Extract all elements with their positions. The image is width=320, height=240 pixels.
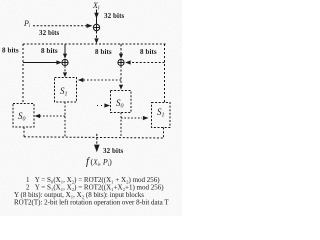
svg-text:8 bits: 8 bits <box>2 46 19 54</box>
wire branch4 tap into xor3 <box>130 62 165 64</box>
svg-text:32 bits: 32 bits <box>39 29 60 37</box>
svg-text:32 bits: 32 bits <box>103 147 124 155</box>
svg-text:8 bits: 8 bits <box>140 48 157 56</box>
wire tap into S1 box A right input <box>84 79 122 81</box>
wire dashed arrow from Pi to xor1 <box>33 25 87 27</box>
wire branch3 vertical to xor3 <box>120 44 122 54</box>
wire branch4 right vertical <box>164 44 166 103</box>
wire branch1 tap into xor2 <box>23 62 58 64</box>
wire xor3 down to S0 box C <box>120 66 122 86</box>
S-box S0 (box B) <box>13 104 34 128</box>
wire split line <box>23 43 166 45</box>
wire S0 boxC output down <box>120 113 122 138</box>
wire tap into S1 box D left input <box>121 117 142 119</box>
svg-text:32 bits: 32 bits <box>104 12 125 20</box>
wire merge line bottom <box>24 137 164 138</box>
wire boxA output into boxC left input <box>97 105 103 107</box>
wire tap into S0 box B right input <box>40 115 65 117</box>
svg-text:8 bits: 8 bits <box>41 47 58 55</box>
wire output arrow down <box>96 134 98 145</box>
xor U1 top <box>93 24 99 30</box>
svg-text:f (Xi, Pi): f (Xi, Pi) <box>86 157 112 168</box>
wire S1 boxA output down <box>64 102 66 137</box>
S-box S1 (box D) <box>152 103 171 128</box>
wire S1 boxD output down <box>163 128 165 139</box>
wire xor1 output down <box>96 31 98 39</box>
svg-text:ROT2(T): 2-bit left rotation o: ROT2(T): 2-bit left rotation operation o… <box>14 199 169 207</box>
xor U3 right <box>118 59 124 65</box>
svg-text:8 bits: 8 bits <box>95 48 112 56</box>
wire S0 boxB output down <box>23 127 25 137</box>
S-box S0 (box C) <box>111 91 132 113</box>
wire xor2 to S1 box <box>64 66 66 73</box>
wire Xi input vertical <box>96 10 98 25</box>
xor U2 left <box>62 59 68 65</box>
S-box S1 (box A) <box>55 78 77 103</box>
wire branch2 vertical to xor2 <box>64 44 66 54</box>
wire branch1 left vertical <box>22 44 24 103</box>
